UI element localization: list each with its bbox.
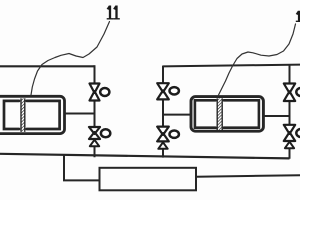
valve V1 handwheel circle — [100, 88, 109, 96]
cylinder right outer shell — [191, 97, 263, 132]
wire port pipe right cylinder right side — [265, 115, 290, 117]
piston right cylinder (hatched) — [217, 98, 221, 130]
cylinder right inner liner right bracket — [224, 100, 259, 127]
cylinder right inner liner left bracket — [195, 100, 216, 127]
cylinder left inner liner left bracket — [4, 101, 19, 129]
valve V5 upper-right bowtie — [284, 84, 295, 102]
arrow triangle below V6 — [285, 142, 294, 149]
label 11 — [107, 6, 120, 20]
bottom main pipe — [0, 154, 290, 159]
valve V3 handwheel circle — [170, 87, 179, 94]
valve V1 upper-left bowtie — [90, 84, 100, 101]
label 1 (cut at right edge) — [296, 11, 302, 22]
wire vertical right valve line — [289, 65, 291, 159]
valve V4 handwheel circle — [170, 131, 179, 138]
leader line for label 11 — [31, 22, 110, 96]
wire port pipe left cylinder to valve line — [66, 113, 95, 115]
box (tank/pump) — [100, 168, 197, 191]
valve V5 handwheel circle (cut at edge) — [296, 88, 305, 96]
leader line for right label — [218, 24, 296, 96]
valve V3 upper-middle bowtie — [157, 83, 169, 99]
valve V6 lower-right bowtie — [284, 125, 295, 141]
wire vertical left valve line — [94, 65, 96, 157]
cylinder left outer shell — [0, 96, 65, 133]
pipe from box right side to edge — [196, 175, 300, 177]
piston left cylinder (hatched) — [21, 98, 25, 131]
valve V2 lower-left bowtie — [89, 127, 100, 139]
valve V4 lower-middle bowtie — [157, 127, 169, 142]
top pipe right segment — [163, 65, 301, 67]
arrow triangle below V4 — [158, 142, 167, 149]
wire port pipe right cylinder left side — [163, 114, 191, 116]
wire vertical middle valve line — [162, 66, 164, 158]
valve V6 handwheel circle (cut at edge) — [296, 129, 305, 137]
arrow triangle below V2 — [90, 140, 99, 146]
cylinder left inner liner right bracket — [27, 101, 60, 129]
branch pipe down to box — [64, 155, 100, 180]
valve V2 handwheel circle — [101, 129, 110, 137]
top pipe left segment — [0, 65, 95, 67]
